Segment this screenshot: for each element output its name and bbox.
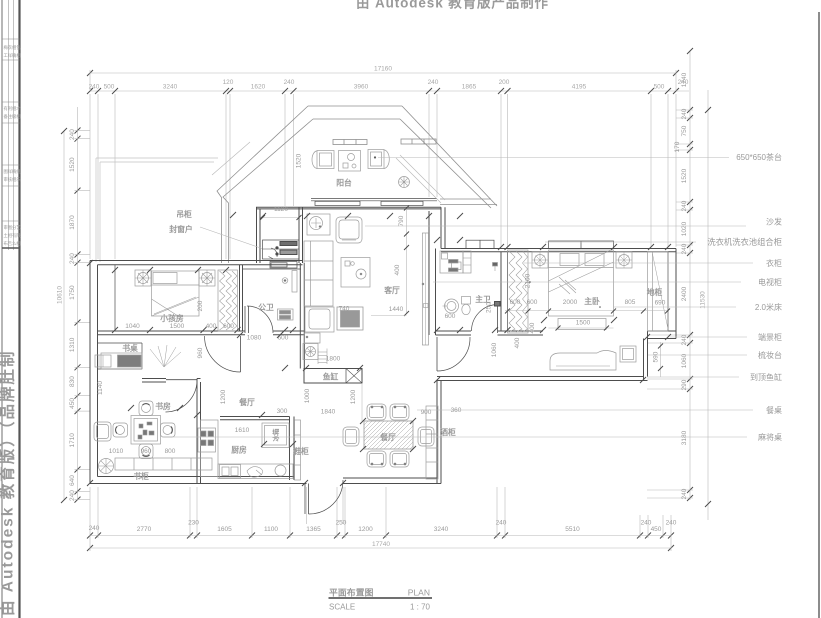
svg-text:240: 240 bbox=[681, 243, 688, 254]
kids room bed bbox=[135, 270, 151, 286]
svg-text:600: 600 bbox=[445, 313, 456, 320]
shell corner outlines far left bbox=[95, 158, 97, 262]
svg-text:1520: 1520 bbox=[681, 168, 688, 183]
svg-text:240: 240 bbox=[69, 129, 76, 140]
svg-text:1310: 1310 bbox=[69, 337, 76, 352]
svg-text:分艺: 分艺 bbox=[12, 224, 21, 231]
master wardrobe hatched bbox=[508, 250, 529, 333]
svg-text:10610: 10610 bbox=[57, 286, 64, 304]
left detail column bbox=[77, 107, 79, 500]
svg-text:有利: 有利 bbox=[4, 105, 13, 112]
svg-text:1140: 1140 bbox=[97, 381, 104, 395]
svg-text:11530: 11530 bbox=[700, 291, 707, 309]
svg-text:麻将桌: 麻将桌 bbox=[758, 432, 782, 442]
bed bench bbox=[558, 319, 606, 330]
desk niche furniture bbox=[101, 353, 142, 369]
sliding door panels bbox=[315, 201, 360, 205]
svg-text:鞋柜: 鞋柜 bbox=[293, 446, 309, 456]
plant + ladder unit bbox=[303, 344, 318, 360]
study armchair + plant bbox=[94, 422, 111, 441]
window bays on top wall bbox=[466, 240, 494, 248]
kitchen top wall bbox=[220, 416, 290, 418]
svg-text:450: 450 bbox=[69, 398, 76, 409]
svg-text:240: 240 bbox=[681, 488, 688, 499]
svg-text:600: 600 bbox=[510, 299, 521, 306]
svg-text:1200: 1200 bbox=[350, 389, 357, 404]
left title-block strip bbox=[1, 0, 3, 618]
svg-text:1200: 1200 bbox=[220, 389, 227, 404]
tiny cell texts bbox=[4, 44, 22, 247]
master bath washer unit bbox=[440, 251, 463, 273]
svg-text:PLAN: PLAN bbox=[408, 588, 430, 598]
svg-text:2400: 2400 bbox=[681, 286, 688, 301]
svg-text:2000: 2000 bbox=[563, 299, 578, 306]
svg-text:17160: 17160 bbox=[374, 66, 392, 73]
bottom overall 17740 bbox=[90, 547, 671, 549]
svg-text:240: 240 bbox=[284, 79, 295, 86]
svg-text:小孩房: 小孩房 bbox=[159, 313, 184, 323]
svg-text:1080: 1080 bbox=[247, 335, 262, 342]
svg-text:1500: 1500 bbox=[576, 320, 591, 327]
svg-text:240: 240 bbox=[89, 84, 100, 91]
svg-text:鱼缸: 鱼缸 bbox=[323, 372, 339, 382]
svg-text:600: 600 bbox=[223, 323, 234, 330]
living tea table bbox=[341, 258, 370, 288]
svg-text:梳妆台: 梳妆台 bbox=[758, 350, 782, 360]
svg-text:1040: 1040 bbox=[125, 323, 140, 330]
kids room door to corridor bbox=[240, 336, 242, 372]
svg-text:450: 450 bbox=[651, 526, 662, 533]
kids bottom wall bbox=[98, 330, 246, 332]
svg-text:电视柜: 电视柜 bbox=[758, 277, 782, 287]
living east / mbath west wall bbox=[428, 211, 430, 335]
svg-text:5510: 5510 bbox=[565, 526, 580, 533]
svg-text:冰箱: 冰箱 bbox=[271, 428, 280, 442]
svg-text:1120: 1120 bbox=[274, 206, 288, 213]
svg-text:封窗户: 封窗户 bbox=[169, 224, 192, 234]
svg-text:500: 500 bbox=[104, 84, 115, 91]
svg-text:2.0米床: 2.0米床 bbox=[755, 302, 782, 312]
svg-text:1 : 70: 1 : 70 bbox=[410, 603, 431, 612]
svg-text:餐厅: 餐厅 bbox=[238, 397, 255, 407]
pubbath north sill bbox=[243, 268, 302, 270]
balcony plant bbox=[399, 177, 410, 188]
master wing top wall bbox=[441, 248, 676, 250]
svg-text:到顶鱼缸: 到顶鱼缸 bbox=[750, 372, 782, 382]
master bed bbox=[532, 252, 548, 268]
svg-text:洗衣机洗衣池组合柜: 洗衣机洗衣池组合柜 bbox=[707, 237, 782, 247]
svg-text:1865: 1865 bbox=[462, 84, 477, 91]
svg-text:240: 240 bbox=[69, 490, 76, 501]
svg-text:500: 500 bbox=[654, 84, 665, 91]
kitchen counters bbox=[201, 420, 219, 477]
svg-text:300: 300 bbox=[277, 408, 288, 415]
desk niche bbox=[98, 342, 143, 344]
svg-text:么相: 么相 bbox=[12, 240, 21, 247]
svg-text:1870: 1870 bbox=[69, 215, 76, 230]
shoe cabinet bbox=[295, 420, 301, 480]
svg-text:1000: 1000 bbox=[304, 388, 311, 403]
dining table hatched bbox=[364, 421, 413, 449]
fan rays bbox=[150, 345, 181, 367]
svg-text:公卫: 公卫 bbox=[258, 303, 274, 312]
svg-text:1365: 1365 bbox=[306, 526, 321, 533]
balcony chair 1 bbox=[317, 151, 334, 169]
svg-text:相包: 相包 bbox=[12, 44, 21, 51]
svg-text:120: 120 bbox=[223, 79, 234, 86]
right overall 11530 bbox=[707, 90, 709, 520]
svg-text:200: 200 bbox=[499, 79, 510, 86]
balcony tea table bbox=[339, 151, 361, 172]
sofa side cabinet bbox=[304, 333, 320, 343]
left wing top wall bbox=[90, 260, 303, 262]
living ottoman bbox=[337, 307, 363, 330]
fish tank bbox=[304, 369, 362, 384]
svg-text:1840: 1840 bbox=[321, 409, 336, 416]
svg-text:600: 600 bbox=[527, 299, 538, 306]
right detail column x=690 bbox=[689, 51, 691, 500]
right cabinet floor cab bbox=[648, 252, 669, 331]
living east wall upper connector bbox=[440, 207, 442, 248]
svg-text:级相: 级相 bbox=[12, 113, 21, 120]
svg-text:SCALE: SCALE bbox=[329, 603, 355, 612]
svg-text:1060: 1060 bbox=[681, 353, 688, 368]
svg-text:1610: 1610 bbox=[235, 427, 250, 434]
master bath toilet bbox=[462, 297, 471, 305]
corridor south wall + study door bbox=[142, 378, 166, 380]
svg-text:690: 690 bbox=[655, 300, 666, 307]
svg-text:740: 740 bbox=[339, 306, 350, 313]
living west wall bbox=[299, 263, 301, 369]
svg-text:400: 400 bbox=[529, 322, 536, 333]
svg-text:地柜: 地柜 bbox=[647, 287, 663, 297]
svg-text:240: 240 bbox=[428, 79, 439, 86]
svg-text:17740: 17740 bbox=[372, 541, 390, 548]
svg-text:240: 240 bbox=[681, 200, 688, 211]
window nook west walls bbox=[256, 207, 258, 263]
nook dim 1120 bbox=[263, 217, 300, 219]
chaise lounge bbox=[550, 351, 616, 371]
svg-text:1500: 1500 bbox=[170, 323, 185, 330]
svg-text:书房: 书房 bbox=[155, 401, 171, 411]
svg-text:170: 170 bbox=[674, 141, 681, 152]
tv cabinet bbox=[422, 233, 428, 345]
left overall 10610 bbox=[63, 131, 65, 500]
svg-text:960: 960 bbox=[141, 448, 152, 455]
study east / kitchen west wall bbox=[196, 379, 198, 484]
svg-text:2100: 2100 bbox=[525, 273, 532, 288]
svg-text:3960: 3960 bbox=[354, 84, 369, 91]
svg-text:1710: 1710 bbox=[69, 433, 76, 448]
living armchair bbox=[336, 217, 362, 243]
svg-text:400: 400 bbox=[514, 337, 521, 348]
pier under cabinet bbox=[271, 263, 287, 267]
shower head bbox=[493, 263, 498, 267]
sealed-window cabinet bbox=[263, 240, 300, 259]
living side table with plant bbox=[307, 214, 330, 235]
balcony chair 2 bbox=[368, 150, 384, 169]
svg-text:400: 400 bbox=[394, 264, 401, 275]
master wing right wall bbox=[675, 249, 677, 339]
svg-text:240: 240 bbox=[681, 108, 688, 119]
svg-text:1605: 1605 bbox=[217, 526, 232, 533]
study chairs bbox=[139, 401, 153, 416]
svg-text:由 Autodesk 教育版产品制作: 由 Autodesk 教育版产品制作 bbox=[356, 0, 549, 11]
pubbath door bbox=[244, 306, 246, 333]
svg-text:1520: 1520 bbox=[69, 157, 76, 172]
top overall dim line 17160 bbox=[90, 72, 676, 74]
svg-text:750: 750 bbox=[681, 125, 688, 136]
svg-text:360: 360 bbox=[451, 407, 462, 414]
right sheet border bbox=[818, 12, 820, 618]
svg-text:阳台: 阳台 bbox=[336, 178, 352, 188]
svg-text:相乐: 相乐 bbox=[12, 176, 21, 183]
svg-text:1200: 1200 bbox=[358, 526, 373, 533]
svg-text:1800: 1800 bbox=[326, 356, 341, 363]
svg-text:梅组: 梅组 bbox=[12, 168, 21, 175]
bottom extension lines bbox=[90, 487, 671, 551]
svg-text:2770: 2770 bbox=[137, 526, 152, 533]
svg-text:650*650茶台: 650*650茶台 bbox=[736, 152, 782, 162]
svg-text:酒柜: 酒柜 bbox=[440, 427, 456, 437]
svg-text:书桌: 书桌 bbox=[122, 343, 138, 353]
master bath sink bbox=[445, 299, 459, 313]
svg-text:290: 290 bbox=[681, 379, 688, 390]
kids room left closet line bbox=[114, 265, 116, 331]
svg-text:1750: 1750 bbox=[69, 285, 76, 300]
svg-text:3240: 3240 bbox=[434, 526, 449, 533]
kids / pubbath divider bbox=[239, 265, 241, 331]
svg-text:厨房: 厨房 bbox=[231, 445, 247, 455]
svg-text:由 Autodesk 教育版）（品牌肚制: 由 Autodesk 教育版）（品牌肚制 bbox=[0, 350, 17, 616]
svg-text:审图: 审图 bbox=[4, 224, 13, 231]
svg-text:1520: 1520 bbox=[296, 153, 303, 168]
svg-text:805: 805 bbox=[625, 299, 636, 306]
kitchen / entry wall bbox=[289, 417, 291, 481]
svg-text:1740: 1740 bbox=[681, 72, 688, 87]
dining chairs bbox=[343, 404, 434, 467]
svg-text:衣柜: 衣柜 bbox=[766, 258, 782, 268]
svg-text:800: 800 bbox=[165, 448, 176, 455]
svg-text:1060: 1060 bbox=[491, 342, 498, 357]
pubbath sink counter bbox=[278, 309, 294, 320]
scattered dark ticks at openings bbox=[87, 212, 671, 486]
svg-text:主卧: 主卧 bbox=[584, 296, 600, 306]
svg-text:端景柜: 端景柜 bbox=[758, 332, 782, 342]
svg-text:4195: 4195 bbox=[572, 84, 587, 91]
kids wardrobe hatched bbox=[218, 270, 238, 331]
svg-text:240: 240 bbox=[681, 334, 688, 345]
svg-text:3240: 3240 bbox=[163, 84, 178, 91]
svg-text:640: 640 bbox=[69, 475, 76, 486]
master wing bottom wall bbox=[437, 380, 648, 382]
interior dims bbox=[97, 153, 670, 455]
svg-text:1020: 1020 bbox=[681, 221, 688, 236]
svg-text:土相: 土相 bbox=[4, 232, 13, 239]
svg-text:餐桌: 餐桌 bbox=[766, 405, 782, 415]
bottom detail dim row bbox=[90, 535, 671, 537]
svg-text:平面布置图: 平面布置图 bbox=[329, 587, 374, 598]
svg-text:吊柜: 吊柜 bbox=[176, 209, 192, 219]
svg-text:590: 590 bbox=[653, 351, 660, 362]
svg-text:790: 790 bbox=[398, 215, 405, 226]
balcony window walls bbox=[217, 106, 497, 263]
fridge bbox=[262, 423, 289, 448]
svg-text:1100: 1100 bbox=[264, 526, 278, 533]
hall door to bedroom bbox=[436, 337, 438, 371]
entry door bbox=[304, 484, 306, 515]
svg-text:1010: 1010 bbox=[109, 448, 124, 455]
svg-text:240: 240 bbox=[69, 253, 76, 264]
svg-text:1440: 1440 bbox=[389, 306, 404, 313]
living top wall bbox=[311, 198, 437, 200]
svg-text:确相: 确相 bbox=[12, 52, 21, 59]
balcony diagonal dim lines bbox=[212, 142, 445, 203]
pubbath east shelf bbox=[292, 271, 297, 293]
bottom wall bbox=[90, 483, 307, 485]
svg-text:沙发: 沙发 bbox=[766, 217, 782, 227]
master bath door bbox=[497, 305, 499, 334]
study bookcase bbox=[115, 458, 212, 470]
wine cabinet bbox=[426, 406, 438, 479]
svg-text:200: 200 bbox=[197, 300, 204, 311]
svg-text:3180: 3180 bbox=[681, 430, 688, 445]
svg-text:250: 250 bbox=[486, 302, 493, 313]
svg-text:有限: 有限 bbox=[12, 232, 21, 239]
svg-text:客厅: 客厅 bbox=[384, 285, 400, 295]
study table (mahjong) bbox=[131, 416, 161, 445]
master bath walls bbox=[500, 252, 502, 331]
top detail dim line bbox=[90, 90, 689, 92]
svg-text:1620: 1620 bbox=[251, 84, 266, 91]
svg-text:830: 830 bbox=[69, 376, 76, 387]
living sofa bbox=[304, 241, 333, 306]
svg-text:相才: 相才 bbox=[12, 105, 21, 112]
svg-text:书柜: 书柜 bbox=[133, 471, 149, 481]
svg-text:960: 960 bbox=[197, 347, 204, 358]
